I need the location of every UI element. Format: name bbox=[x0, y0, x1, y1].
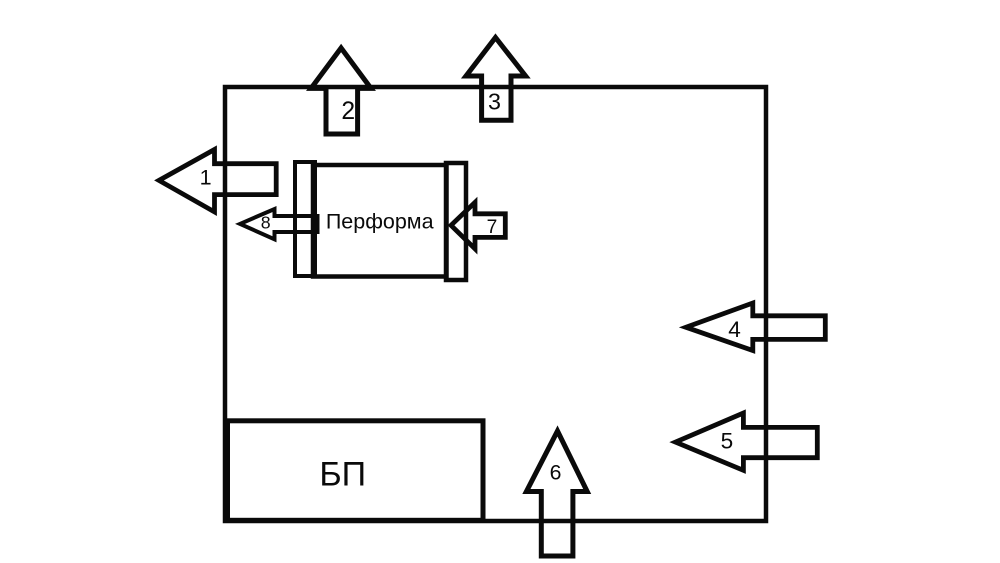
arrow 2 (up block arrow, top wall) bbox=[311, 48, 371, 134]
Performa right flange bbox=[446, 163, 466, 280]
svg-text:1: 1 bbox=[200, 166, 212, 190]
svg-text:4: 4 bbox=[728, 317, 741, 342]
arrow 6 (up block arrow, bottom wall) bbox=[526, 431, 587, 556]
arrow 7 (left block arrow into Performa right flange) bbox=[451, 202, 505, 248]
arrow 1 (left block arrow, crosses left wall) bbox=[159, 150, 276, 212]
svg-text:6: 6 bbox=[550, 460, 562, 484]
arrow 4 (left block arrow, right wall) bbox=[686, 303, 825, 351]
Performa left flange bbox=[295, 162, 315, 276]
svg-text:5: 5 bbox=[721, 428, 734, 453]
svg-text:Перформа: Перформа bbox=[326, 210, 434, 234]
arrow 3 (up block arrow, top wall) bbox=[466, 38, 526, 121]
main enclosure rectangle bbox=[225, 87, 766, 521]
svg-text:2: 2 bbox=[341, 98, 355, 125]
svg-text:3: 3 bbox=[488, 89, 501, 115]
box BP (power supply) bbox=[228, 421, 484, 521]
svg-text:7: 7 bbox=[487, 217, 498, 238]
svg-text:8: 8 bbox=[261, 213, 271, 233]
svg-text:БП: БП bbox=[319, 456, 366, 494]
arrow 5 (left block arrow, right wall) bbox=[676, 413, 818, 470]
arrow 8 (left block arrow out of Performa left flange) bbox=[240, 209, 318, 239]
Performa main box bbox=[313, 165, 447, 277]
